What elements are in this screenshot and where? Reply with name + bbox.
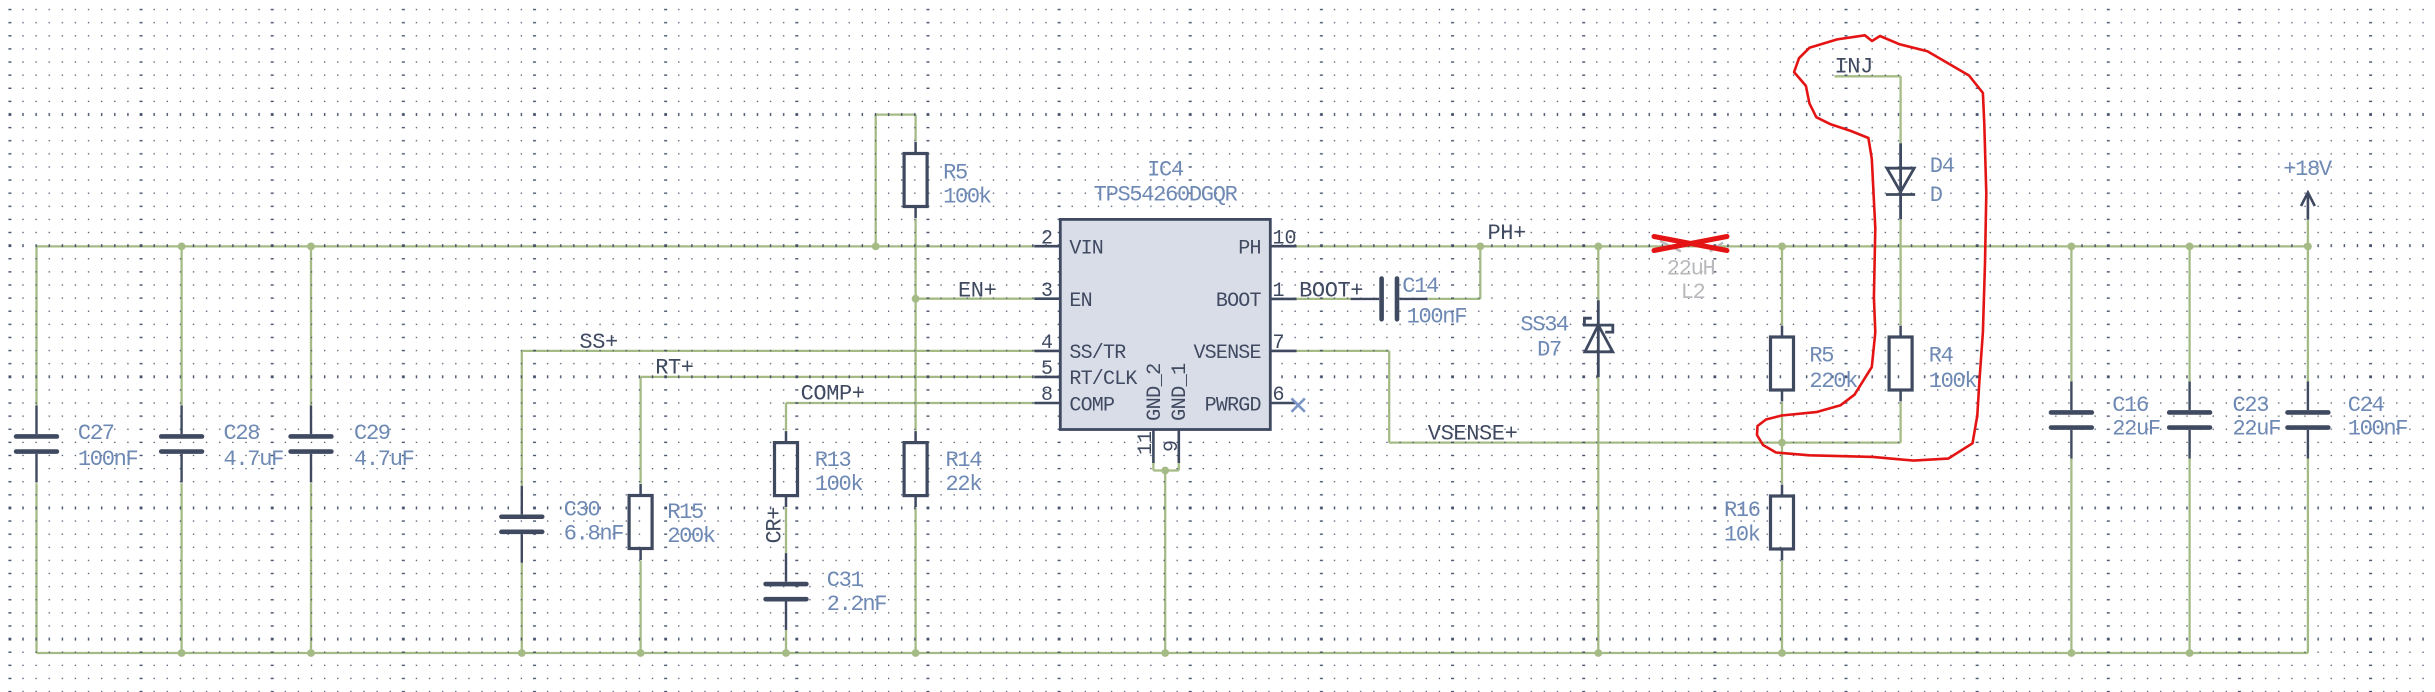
svg-text:R4: R4 — [1929, 344, 1954, 369]
wire R5(220k) top lead — [1781, 246, 1783, 325]
svg-text:PH+: PH+ — [1488, 221, 1526, 246]
svg-text:100nF: 100nF — [78, 447, 138, 472]
junction C16/ground — [2068, 649, 2076, 657]
capacitor C16 — [2051, 382, 2092, 459]
pin stubs left (2,3,4,5,8) — [1034, 246, 1060, 403]
junction D7/PH rail — [1594, 243, 1602, 251]
svg-text:220k: 220k — [1809, 369, 1858, 394]
red annotation loop around INJ/D4/R4 — [1757, 35, 1986, 460]
wire C29 top lead — [310, 246, 312, 405]
svg-text:BOOT+: BOOT+ — [1299, 279, 1363, 304]
svg-text:1: 1 — [1273, 280, 1285, 303]
wire GND_1 stub down — [1178, 463, 1180, 471]
wire IC ground down — [1164, 471, 1166, 654]
svg-text:2: 2 — [1041, 227, 1053, 250]
wire D7 anode down to ground — [1597, 377, 1599, 653]
svg-text:RT/CLK: RT/CLK — [1069, 368, 1137, 391]
svg-text:SS/TR: SS/TR — [1069, 342, 1126, 365]
wire INJ down to D4 — [1899, 76, 1901, 143]
junction R14/ground — [912, 649, 920, 657]
svg-text:EN: EN — [1069, 290, 1091, 313]
IC U1 body (TPS54260DGQR) — [1060, 219, 1270, 429]
wire C27 top lead — [35, 246, 37, 405]
svg-text:BOOT: BOOT — [1216, 290, 1262, 313]
wire R14 to ground — [914, 508, 916, 653]
capacitor C30 — [501, 486, 542, 563]
wire C23 top lead — [2188, 246, 2190, 381]
junction C30/ground — [518, 649, 526, 657]
svg-text:GND_2: GND_2 — [1144, 363, 1167, 421]
resistor R15 — [629, 484, 652, 560]
junction C31/ground — [782, 649, 790, 657]
svg-text:8: 8 — [1041, 384, 1053, 407]
svg-text:C27: C27 — [78, 421, 114, 446]
svg-text:4.7uF: 4.7uF — [354, 447, 414, 472]
wire C30 to ground — [521, 563, 523, 653]
junction C29/VIN rail — [307, 243, 315, 251]
junction D7/ground — [1594, 649, 1602, 657]
svg-text:INJ: INJ — [1835, 55, 1873, 80]
wire C31 to ground — [785, 630, 787, 653]
capacitor C14 — [1351, 279, 1428, 320]
svg-text:100nF: 100nF — [1407, 304, 1467, 329]
resistor R16 — [1771, 485, 1794, 561]
junction R16/ground — [1778, 649, 1786, 657]
wire RT+ to pin5 — [641, 376, 1035, 378]
wire C16 top lead — [2070, 246, 2072, 381]
resistor R5 (220k) — [1771, 326, 1794, 402]
svg-text:100k: 100k — [815, 472, 864, 497]
red deletion X over L2 — [1654, 237, 1727, 251]
svg-text:VSENSE+: VSENSE+ — [1428, 421, 1518, 446]
svg-text:C29: C29 — [354, 421, 390, 446]
wire C28 bottom lead — [180, 483, 182, 653]
svg-text:+18V: +18V — [2283, 157, 2333, 182]
svg-text:6: 6 — [1273, 384, 1285, 407]
wire C23 bottom lead — [2188, 459, 2190, 654]
svg-text:SS34: SS34 — [1520, 313, 1569, 338]
svg-text:100k: 100k — [1929, 369, 1978, 394]
svg-text:D: D — [1930, 183, 1943, 208]
capacitor C29 — [291, 406, 332, 483]
resistor R14 — [904, 431, 927, 507]
svg-text:D7: D7 — [1537, 337, 1561, 362]
wire VSENSE pin7 out — [1297, 350, 1390, 352]
junction C23/ground — [2186, 649, 2194, 657]
wire GND stub join — [1153, 469, 1178, 471]
junction EN+ node — [912, 295, 920, 303]
wire INJ stub — [1835, 75, 1901, 77]
capacitor C23 — [2169, 382, 2210, 459]
svg-text:100k: 100k — [943, 185, 992, 210]
wire R5 jog down to VIN rail — [875, 115, 877, 247]
junction IC GND/ground — [1161, 649, 1169, 657]
svg-text:CR+: CR+ — [763, 508, 788, 544]
svg-text:IC4: IC4 — [1147, 158, 1184, 183]
wire SS+ to pin4 — [522, 350, 1035, 352]
wire BOOT+ to C14 — [1297, 298, 1352, 300]
wire EN+ to pin3 — [916, 298, 1035, 300]
wire R5(220k) to VSENSE node — [1781, 402, 1783, 443]
resistor R5 (100k top) — [904, 142, 927, 218]
svg-text:200k: 200k — [667, 524, 716, 549]
svg-text:VSENSE: VSENSE — [1193, 342, 1260, 365]
svg-text:COMP+: COMP+ — [801, 382, 865, 407]
junction C28/VIN rail — [178, 243, 186, 251]
wire PH/+18V rail right — [1297, 245, 2308, 247]
svg-text:R5: R5 — [943, 161, 967, 186]
junction C28/ground — [178, 649, 186, 657]
wire COMP+ down to R13 — [785, 403, 787, 431]
no-connect cross pin 6 — [1292, 398, 1305, 411]
wire D4 to R4 crossing rail — [1899, 219, 1901, 325]
svg-text:R16: R16 — [1724, 498, 1760, 523]
wire R15 to ground — [639, 561, 641, 654]
junction C23/rail — [2186, 243, 2194, 251]
svg-text:5: 5 — [1041, 358, 1053, 381]
wire C14 to PH corner — [1428, 298, 1480, 300]
wire R5 bottom to R14 top — [914, 219, 916, 431]
power symbol +18V — [2301, 193, 2315, 220]
svg-text:R14: R14 — [946, 448, 983, 473]
capacitor C24 — [2288, 382, 2329, 459]
junction C29/ground — [307, 649, 315, 657]
wire VSENSE+ horizontal — [1389, 441, 1900, 443]
svg-text:SS+: SS+ — [579, 330, 617, 355]
svg-text:4: 4 — [1041, 332, 1053, 355]
svg-text:7: 7 — [1273, 332, 1285, 355]
svg-text:R13: R13 — [815, 448, 851, 473]
capacitor C31 — [766, 553, 807, 630]
deleted inductor L2 ghost marks — [1660, 241, 1723, 252]
wire C29 bottom lead — [310, 483, 312, 653]
wire GND_2 stub down — [1152, 463, 1154, 471]
junction R5 jog/VIN rail — [872, 243, 880, 251]
svg-text:10: 10 — [1273, 227, 1297, 250]
wire R16 to ground — [1781, 561, 1783, 653]
svg-text:C23: C23 — [2233, 393, 2269, 418]
junction R5 220k/rail — [1778, 243, 1786, 251]
wire SS+ down to C30 — [521, 351, 523, 486]
svg-text:6.8nF: 6.8nF — [564, 522, 624, 547]
svg-text:11: 11 — [1135, 431, 1158, 455]
svg-text:COMP: COMP — [1069, 394, 1114, 417]
svg-text:VIN: VIN — [1069, 238, 1103, 261]
wire COMP+ to pin8 — [786, 402, 1034, 404]
wire R5 top lead — [914, 115, 916, 142]
svg-text:PWRGD: PWRGD — [1205, 394, 1261, 417]
wire C28 top lead — [180, 246, 182, 405]
wire D7 cathode up to PH rail — [1597, 246, 1599, 300]
svg-text:C31: C31 — [827, 568, 864, 593]
svg-text:C28: C28 — [224, 421, 260, 446]
wire C24 bottom lead — [2307, 459, 2309, 654]
svg-text:D4: D4 — [1930, 154, 1955, 179]
svg-text:22uF: 22uF — [2112, 417, 2160, 442]
svg-text:C14: C14 — [1402, 274, 1439, 299]
wire C27 bottom lead — [35, 483, 37, 653]
svg-text:22k: 22k — [946, 472, 983, 497]
svg-text:C30: C30 — [564, 498, 600, 523]
svg-text:9: 9 — [1161, 440, 1184, 452]
svg-text:L2: L2 — [1681, 280, 1705, 305]
svg-text:100nF: 100nF — [2348, 417, 2408, 442]
wire C14 up to PH rail — [1479, 246, 1481, 299]
wire VSENSE corner down — [1388, 351, 1390, 443]
svg-text:R5: R5 — [1809, 344, 1833, 369]
wire VIN rail left — [37, 245, 1035, 247]
wire +18V stem — [2307, 220, 2309, 247]
diode D7 (SS34 schottky) — [1584, 300, 1612, 377]
wire R5 top jog horizontal — [876, 113, 916, 115]
svg-text:PH: PH — [1238, 238, 1260, 261]
pin stubs right (10,1,7,6) — [1270, 246, 1296, 403]
junction IC GND stubs — [1161, 467, 1169, 475]
pin stubs bottom (11,9 GND) — [1153, 430, 1178, 464]
svg-text:10k: 10k — [1724, 522, 1761, 547]
resistor R4 — [1889, 326, 1912, 402]
svg-text:EN+: EN+ — [958, 279, 996, 304]
junction C16/rail — [2068, 243, 2076, 251]
capacitor C27 — [16, 406, 57, 483]
svg-text:2.2nF: 2.2nF — [827, 592, 887, 617]
svg-text:R15: R15 — [667, 500, 703, 525]
junction R15/ground — [637, 649, 645, 657]
diode D4 — [1886, 143, 1915, 219]
wire ground rail bottom — [37, 652, 2308, 654]
wire C24 top lead — [2307, 246, 2309, 381]
svg-text:GND_1: GND_1 — [1169, 363, 1192, 421]
junction VSENSE+ node — [1778, 439, 1786, 447]
wire R13 to C31 (CR+) — [785, 508, 787, 553]
capacitor C28 — [161, 406, 202, 483]
svg-text:3: 3 — [1041, 280, 1053, 303]
wire RT+ down to R15 — [639, 377, 641, 484]
wire VSENSE node to R16 — [1781, 443, 1783, 484]
svg-text:4.7uF: 4.7uF — [224, 447, 284, 472]
svg-text:C24: C24 — [2348, 393, 2385, 418]
junction C24/+18V rail — [2304, 243, 2312, 251]
junction C14/PH rail — [1476, 243, 1484, 251]
svg-text:22uH: 22uH — [1667, 257, 1715, 282]
wire C16 bottom lead — [2070, 459, 2072, 654]
svg-text:TPS54260DGQR: TPS54260DGQR — [1094, 182, 1238, 207]
wire R4 down to VSENSE+ — [1899, 402, 1901, 443]
svg-text:22uF: 22uF — [2233, 417, 2281, 442]
svg-text:RT+: RT+ — [655, 356, 693, 381]
svg-text:C16: C16 — [2112, 393, 2148, 418]
resistor R13 — [775, 431, 798, 507]
